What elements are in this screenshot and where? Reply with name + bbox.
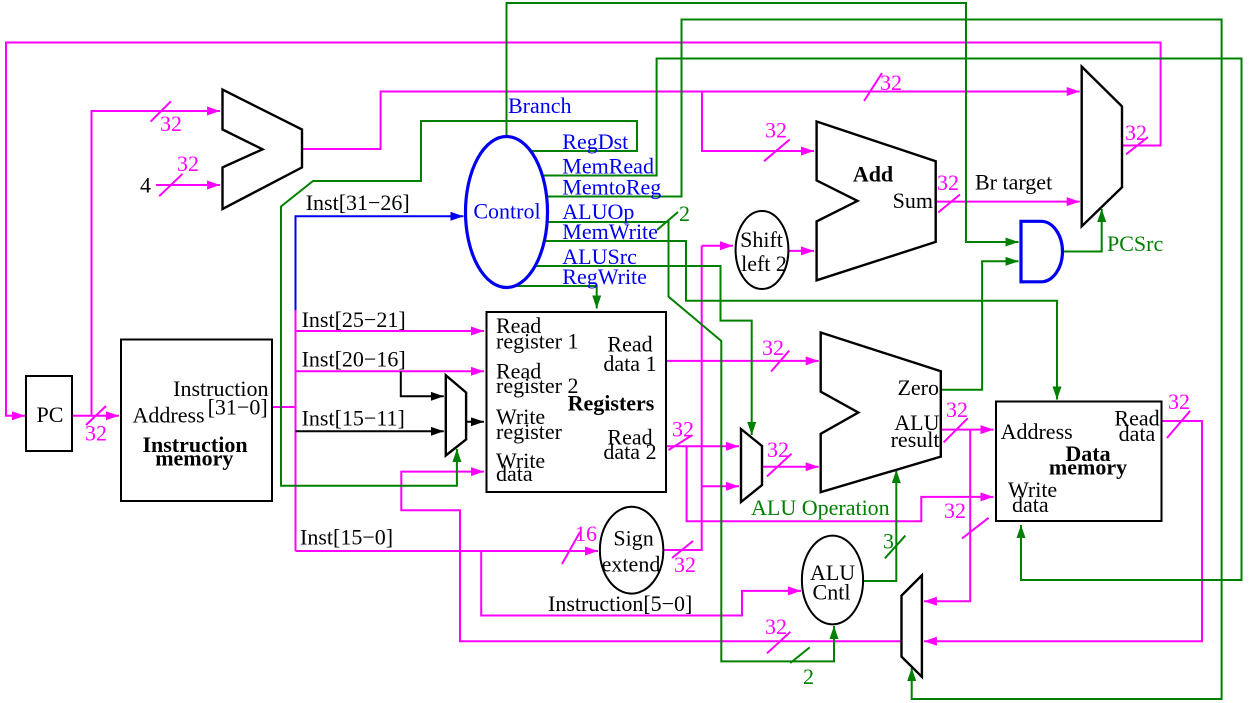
shift left 2 oval xyxy=(736,211,789,289)
svg-text:register 2: register 2 xyxy=(496,373,578,398)
bus width 32 on Sum output xyxy=(937,170,960,213)
svg-text:2: 2 xyxy=(803,664,814,689)
svg-text:left 2: left 2 xyxy=(741,251,787,276)
svg-text:32: 32 xyxy=(160,111,182,136)
bus width 32 on PC+4 to Add xyxy=(764,118,790,162)
bus width 32 on ALU result xyxy=(944,397,968,442)
svg-text:32: 32 xyxy=(762,335,784,360)
wire: Inst[15-11] to write-register mux input 2 xyxy=(296,430,444,432)
svg-text:Address: Address xyxy=(133,403,205,428)
wire: RegWrite from Control to Registers xyxy=(515,286,597,309)
AND gate PCSrc xyxy=(1021,221,1062,281)
svg-text:32: 32 xyxy=(767,437,789,462)
wire: Sign extend output riser xyxy=(663,246,702,550)
bus width 2 on ALUOp at control xyxy=(657,201,690,230)
svg-text:32: 32 xyxy=(674,552,696,577)
bus width 32 on PC to adder xyxy=(151,101,182,136)
wire: Data memory Read data to result mux input 2 xyxy=(924,421,1202,641)
svg-text:Sum: Sum xyxy=(893,188,933,213)
svg-text:Control: Control xyxy=(473,199,540,224)
svg-text:32: 32 xyxy=(946,397,968,422)
bus width 32 on new PC xyxy=(1125,120,1148,154)
svg-text:3: 3 xyxy=(883,529,894,554)
wire: Read data 2 to ALUSrc mux input 1 xyxy=(666,445,739,447)
svg-text:Address: Address xyxy=(1001,419,1073,444)
svg-text:RegDst: RegDst xyxy=(562,129,628,154)
sign extend oval xyxy=(600,507,663,594)
adder Add (branch target) xyxy=(817,122,936,281)
control unit oval xyxy=(466,137,548,288)
bus width 16 on Inst[15-0] xyxy=(562,521,597,564)
wire: Inst[15-0] to Sign extend xyxy=(296,550,599,552)
svg-text:32: 32 xyxy=(85,421,107,446)
svg-text:data: data xyxy=(496,461,533,486)
wire: Instruction[5-0] to ALU Cntl xyxy=(481,551,801,616)
wire: Inst[31-26] to Control xyxy=(296,216,464,310)
wire: Read data 1 to ALU input 1 xyxy=(666,360,819,362)
svg-text:Registers: Registers xyxy=(568,391,655,416)
bus width 32 on Read data 1 xyxy=(762,335,789,372)
wire: Read data 2 branch to Data memory Write data xyxy=(687,446,994,521)
wire: PC+4 branch down to Add input 1 xyxy=(702,92,814,152)
wire: Inst[25-21] to Read register 1 xyxy=(296,330,485,332)
svg-text:32: 32 xyxy=(944,498,966,523)
svg-text:Inst[20−16]: Inst[20−16] xyxy=(302,347,406,372)
wire: write-back from result mux to Registers Write data xyxy=(401,472,901,642)
bus width 32 on PC+4 to mux xyxy=(864,70,902,101)
svg-text:PCSrc: PCSrc xyxy=(1107,231,1163,256)
wire: new PC from mux to PC input xyxy=(6,43,1161,416)
wire: Sum (branch target) to top-right mux input 2 xyxy=(936,201,1080,203)
svg-text:RegWrite: RegWrite xyxy=(562,264,647,289)
wire: ALUSrc mux output to ALU input 2 xyxy=(762,466,819,468)
svg-text:MemWrite: MemWrite xyxy=(562,219,658,244)
svg-text:memory: memory xyxy=(1049,455,1127,480)
bus width 2 on ALUOp at ALU Cntl xyxy=(790,647,814,689)
wire: sign extended value to ALUSrc mux input 2 xyxy=(702,485,739,487)
bus width 32 on Read data 2 xyxy=(669,417,695,451)
svg-text:register 1: register 1 xyxy=(496,329,578,354)
svg-text:result: result xyxy=(891,427,940,452)
wire: ALU result branch down to result mux input 1 xyxy=(924,430,970,602)
svg-text:Sign: Sign xyxy=(613,526,653,551)
svg-text:ALU Operation: ALU Operation xyxy=(751,495,890,520)
bus width 3 on ALU control xyxy=(883,529,905,559)
mux PC source (top right) xyxy=(1082,67,1122,227)
svg-text:Inst[31−26]: Inst[31−26] xyxy=(306,190,410,215)
wire: ALU control from ALU Cntl to ALU select xyxy=(863,470,896,581)
svg-text:data: data xyxy=(1119,421,1156,446)
instruction memory box xyxy=(121,340,272,502)
wire: sign extended value to Shift left 2 xyxy=(702,245,733,247)
svg-text:Br target: Br target xyxy=(975,170,1052,195)
wire: ALUSrc from Control to ALUSrc mux select xyxy=(535,266,752,435)
wire: PC value riser to adder input 1 xyxy=(92,111,221,416)
svg-text:Shift: Shift xyxy=(740,227,783,252)
bus width 32 on result to mux xyxy=(944,498,989,539)
svg-text:MemtoReg: MemtoReg xyxy=(562,175,661,200)
svg-text:[31−0]: [31−0] xyxy=(208,395,268,420)
wire: RegDst from Control to write-register mux select xyxy=(281,121,637,486)
svg-text:Add: Add xyxy=(853,162,893,187)
svg-text:Instruction[5−0]: Instruction[5−0] xyxy=(548,591,692,616)
svg-text:32: 32 xyxy=(177,151,199,176)
svg-text:extend: extend xyxy=(602,552,661,577)
wire: Instruction memory output to instruction bus xyxy=(272,406,296,408)
svg-text:Inst[25−21]: Inst[25−21] xyxy=(302,307,406,332)
wire: instruction bus vertical xyxy=(295,305,297,551)
wire: ALUOp from Control to ALU Cntl xyxy=(546,222,834,661)
ALU U1 xyxy=(821,333,941,493)
mux memory-to-register (bottom right, mirrored) xyxy=(902,575,922,677)
wire: PCSrc from AND gate to top-right mux select xyxy=(1063,209,1102,252)
svg-text:32: 32 xyxy=(937,170,959,195)
wire: MemRead from Control to Data memory xyxy=(544,59,1242,581)
bus width 32 on sign extend output xyxy=(672,541,696,577)
svg-text:32: 32 xyxy=(765,118,787,143)
bus width 32 on memory Read data xyxy=(1167,389,1190,438)
svg-text:4: 4 xyxy=(140,173,151,198)
svg-text:Zero: Zero xyxy=(897,375,939,400)
svg-text:16: 16 xyxy=(575,521,597,546)
svg-text:data: data xyxy=(1012,492,1049,517)
bus width 32 on PC output xyxy=(85,406,107,446)
svg-text:2: 2 xyxy=(679,201,690,226)
wire: MemWrite from Control to Data memory xyxy=(544,241,1057,400)
data memory box xyxy=(996,402,1162,522)
wire: Shift left 2 output to Add input 2 xyxy=(788,250,814,252)
PC register box xyxy=(26,376,72,451)
bus width 32 on ALUSrc mux output xyxy=(767,437,792,476)
svg-text:32: 32 xyxy=(1168,389,1190,414)
wire: PC output to Instruction memory Address xyxy=(72,415,119,417)
wire: MemtoReg from Control to result mux select xyxy=(546,20,1222,700)
wire: Zero from ALU to AND gate input 2 xyxy=(941,261,1019,389)
svg-text:data 1: data 1 xyxy=(603,351,656,376)
svg-text:Branch: Branch xyxy=(508,93,572,118)
wire: Branch from Control to AND gate input 1 xyxy=(507,3,1019,242)
bus width 32 on write-back xyxy=(765,614,790,653)
wire: write-register mux output to Registers xyxy=(466,421,484,423)
svg-text:Inst[15−11]: Inst[15−11] xyxy=(302,406,405,431)
wire: constant 4 into adder input 2 xyxy=(156,184,220,186)
svg-text:Cntl: Cntl xyxy=(813,580,851,605)
svg-text:memory: memory xyxy=(155,446,233,471)
mux write register xyxy=(446,375,466,455)
wire: PC+4 from adder to top-right mux input 1 xyxy=(302,92,1080,150)
svg-text:PC: PC xyxy=(37,402,64,427)
svg-text:Inst[15−0]: Inst[15−0] xyxy=(300,525,393,550)
adder PC+4 xyxy=(223,90,303,209)
wire: ALU result to Data memory Address xyxy=(941,429,994,431)
mux ALUSrc xyxy=(741,429,762,502)
wire: Inst[20-16] to Read register 2 xyxy=(296,370,485,372)
svg-text:register: register xyxy=(496,419,563,444)
svg-text:data 2: data 2 xyxy=(603,439,656,464)
ALU control oval xyxy=(802,536,863,625)
registers box xyxy=(487,312,667,492)
wire: Inst[20-16] branch to write-register mux input 1 xyxy=(401,371,444,396)
svg-text:32: 32 xyxy=(1125,120,1147,145)
svg-text:32: 32 xyxy=(880,70,902,95)
svg-text:32: 32 xyxy=(672,417,694,442)
svg-text:32: 32 xyxy=(765,614,787,639)
bus width 32 on constant 4 xyxy=(159,151,199,196)
